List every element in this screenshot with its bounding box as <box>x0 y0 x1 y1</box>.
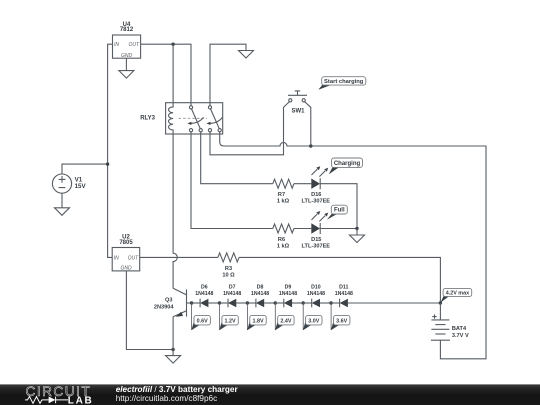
flag 2.4V <box>275 303 294 330</box>
svg-text:15V: 15V <box>75 183 87 190</box>
svg-text:LTL-307EE: LTL-307EE <box>302 243 331 249</box>
svg-text:LTL-307EE: LTL-307EE <box>302 198 331 204</box>
svg-text:IN: IN <box>114 255 119 261</box>
switch SW1 <box>288 91 311 146</box>
flag 4.2V max <box>440 288 471 302</box>
svg-text:7805: 7805 <box>119 240 133 246</box>
node chain dot 4 <box>274 301 277 304</box>
ground top right <box>239 51 254 59</box>
wire D11 to battery node <box>348 302 441 304</box>
svg-text:LAB: LAB <box>68 395 94 405</box>
svg-text:Q3: Q3 <box>165 298 172 304</box>
wire relay coil bottom down with hop over R3 wire to Q3 collector <box>173 134 177 288</box>
wire coil top <box>172 44 174 102</box>
svg-text:0.6V: 0.6V <box>197 319 208 325</box>
transistor Q3 2N3904 <box>154 288 192 349</box>
flag 0.6V <box>191 303 210 330</box>
svg-text:R3: R3 <box>225 266 232 272</box>
svg-text:7812: 7812 <box>120 27 134 33</box>
node chain dot 6 <box>329 301 332 304</box>
svg-text:3.6V: 3.6V <box>336 319 347 325</box>
diode D8 1N4148 <box>251 285 275 308</box>
svg-text:GND: GND <box>120 265 132 271</box>
svg-text:1 kΩ: 1 kΩ <box>277 198 290 204</box>
wire chain dot1 to D6 <box>192 302 201 304</box>
wire U2 OUT to R3 <box>140 256 218 258</box>
node SW1 right leg junction <box>309 144 312 147</box>
ground under LEDs <box>350 229 365 243</box>
node LED cathodes junction <box>355 227 358 230</box>
svg-text:GND: GND <box>121 53 133 59</box>
svg-text:Full: Full <box>334 208 345 214</box>
wire D16 cathode to LED ground junction <box>320 184 357 229</box>
ground under V1 <box>55 208 70 216</box>
svg-text:1.2V: 1.2V <box>225 319 236 325</box>
LED D15 LTL-307EE <box>302 211 331 249</box>
node coil tap on OUT wire <box>171 43 174 46</box>
svg-text:3.7V V: 3.7V V <box>452 333 469 339</box>
svg-text:D8: D8 <box>257 285 264 291</box>
svg-text:1N4148: 1N4148 <box>307 291 325 297</box>
flag Full <box>327 205 348 220</box>
resistor R7 1k <box>273 179 294 204</box>
flag Charging <box>329 158 363 174</box>
wire chain dot4 to D9 <box>275 302 284 304</box>
svg-text:R6: R6 <box>278 237 285 243</box>
wire chain dot2 to D7 <box>220 302 229 304</box>
ground under U4 <box>119 71 134 79</box>
wire chain dot3 to D8 <box>247 302 256 304</box>
svg-text:D16: D16 <box>311 192 321 198</box>
banner bar <box>0 384 540 405</box>
flag 3.0V <box>303 303 322 330</box>
regulator U2 7805 <box>112 234 140 271</box>
wire relay A-left terminal down to R6 row <box>191 132 273 229</box>
svg-text:1N4148: 1N4148 <box>223 291 241 297</box>
wire relay B-left terminal to SW1 left leg <box>210 102 289 155</box>
wire chain dot5 to D10 <box>303 302 312 304</box>
diode D7 1N4148 <box>223 285 247 308</box>
wire U4 OUT to relay switch A top <box>141 44 191 105</box>
diode D9 1N4148 <box>279 285 303 308</box>
svg-text:1N4148: 1N4148 <box>279 291 297 297</box>
svg-text:1N4148: 1N4148 <box>335 291 353 297</box>
LED D16 LTL-307EE <box>302 166 331 204</box>
wire V1 top to rail <box>62 164 108 174</box>
wire V1 bottom stub <box>61 193 63 208</box>
logo zigzag and diode <box>25 397 68 404</box>
node chain dot 1 <box>190 301 193 304</box>
svg-text:2.4V: 2.4V <box>280 319 291 325</box>
wire U2 GND down and right to ground junction <box>126 271 173 350</box>
diode D6 1N4148 <box>195 285 219 308</box>
battery BAT4 3.7V <box>431 303 469 340</box>
svg-text:D11: D11 <box>339 285 348 291</box>
svg-text:D6: D6 <box>201 285 208 291</box>
voltage source V1 15V <box>52 174 86 193</box>
resistor R6 1k <box>273 224 294 249</box>
svg-text:OUT: OUT <box>128 42 140 48</box>
svg-text:http://circuitlab.com/c8f9p6c: http://circuitlab.com/c8f9p6c <box>116 394 217 403</box>
svg-text:electrofiil / 3.7V battery cha: electrofiil / 3.7V battery charger <box>116 385 239 394</box>
wire R3 to battery node <box>239 257 440 303</box>
wire chain dot6 to D11 <box>331 302 340 304</box>
node chain dot 5 <box>302 301 305 304</box>
node battery top junction <box>439 301 442 304</box>
svg-text:SW1: SW1 <box>291 109 305 115</box>
svg-text:RLY3: RLY3 <box>140 115 155 121</box>
svg-text:1N4148: 1N4148 <box>195 291 213 297</box>
resistor R3 10 ohm <box>218 253 239 279</box>
svg-text:4.2V max: 4.2V max <box>446 290 469 296</box>
relay RLY3 <box>140 103 222 134</box>
svg-text:D10: D10 <box>311 285 321 291</box>
svg-text:D9: D9 <box>285 285 292 291</box>
ground under Q3 emitter <box>166 350 181 364</box>
node chain dot 2 <box>218 301 221 304</box>
wire relay B-right terminal to right rail and battery bottom (hop over SW1 left leg) <box>220 132 486 359</box>
wire R7 to D16 <box>294 183 311 185</box>
wire R6 to D15 <box>294 228 311 230</box>
diode D10 1N4148 <box>307 285 331 308</box>
svg-text:BAT4: BAT4 <box>452 326 467 332</box>
flag 3.6V <box>331 303 350 330</box>
svg-text:2N3904: 2N3904 <box>154 304 174 310</box>
node chain dot 3 <box>246 301 249 304</box>
wire relay A-right terminal down to R7 row <box>201 132 273 184</box>
flag Start charging <box>318 77 366 90</box>
regulator U4 7812 <box>113 22 141 59</box>
svg-text:R7: R7 <box>278 192 285 198</box>
svg-text:D7: D7 <box>229 285 236 291</box>
svg-text:Start charging: Start charging <box>324 79 364 85</box>
svg-text:D15: D15 <box>311 237 321 243</box>
svg-text:1N4148: 1N4148 <box>251 291 269 297</box>
wire relay switch B top to ground <box>210 44 246 105</box>
wire left rail from U4 IN down to U2 IN <box>108 44 113 257</box>
diode D11 1N4148 <box>335 285 353 308</box>
svg-text:10 Ω: 10 Ω <box>222 273 235 279</box>
svg-text:1.8V: 1.8V <box>252 319 263 325</box>
svg-text:3.0V: 3.0V <box>308 319 319 325</box>
node V1 tap junction <box>106 162 109 165</box>
wire D15 cathode to junction <box>320 228 357 230</box>
svg-text:OUT: OUT <box>128 255 140 261</box>
flag 1.8V <box>247 303 266 330</box>
svg-text:Charging: Charging <box>334 161 361 167</box>
flag 1.2V <box>219 303 238 330</box>
svg-text:1 kΩ: 1 kΩ <box>277 243 290 249</box>
wire U4 GND stub <box>125 58 127 70</box>
node emitter ground junction <box>171 348 174 351</box>
svg-text:IN: IN <box>114 42 119 48</box>
